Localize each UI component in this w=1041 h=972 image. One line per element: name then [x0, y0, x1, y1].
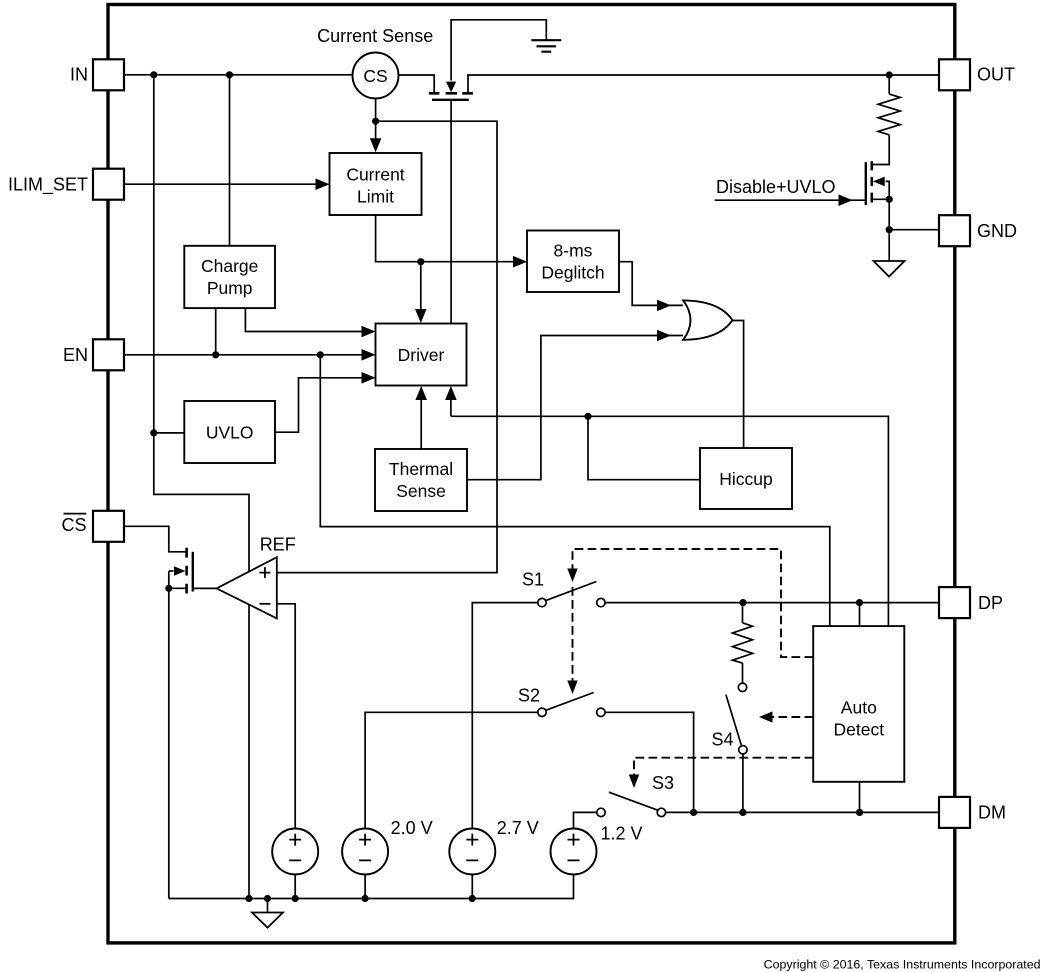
svg-text:Deglitch: Deglitch	[541, 263, 604, 283]
wire discharge FET body stub	[886, 181, 890, 199]
ground earth symbol top	[531, 40, 561, 52]
wire GND rail	[889, 229, 940, 231]
dashed wire Auto Detect to S3 control	[634, 758, 813, 783]
switch S3 contacts and lever	[597, 792, 666, 816]
wire DP rail from S1 to DP pin	[605, 602, 939, 604]
svg-text:Current: Current	[346, 165, 404, 185]
svg-text:Limit: Limit	[357, 187, 394, 207]
svg-text:Current Sense: Current Sense	[317, 26, 433, 46]
block Thermal Sense	[375, 449, 467, 511]
wire pass FET source stub to OUT rail	[468, 75, 939, 92]
wire CS FET source/body column to bottom rail	[168, 571, 170, 899]
voltage source REF (unlabeled)	[272, 829, 318, 875]
arrowheads	[316, 82, 853, 788]
wire 1.2V source to S3 left contact	[574, 812, 597, 828]
dashed wire Auto Detect to S1/S2 control	[573, 549, 814, 657]
transistor Q2 discharge FET channel and gate	[866, 161, 872, 205]
svg-text:Copyright © 2016, Texas Instru: Copyright © 2016, Texas Instruments Inco…	[764, 957, 1041, 971]
wire 2.0V source bottom stub	[364, 875, 366, 899]
node CS FET source/body junction	[165, 585, 172, 592]
node rail/ground junction	[264, 895, 271, 902]
wire sense line to comparator plus input	[277, 121, 497, 572]
pin CS-bar	[61, 511, 124, 542]
node rail/REF-source junction	[292, 895, 299, 902]
svg-text:Driver: Driver	[398, 345, 445, 365]
wire Thermal Sense to Driver bottom	[420, 389, 422, 449]
node DM/S4 junction	[739, 809, 746, 816]
node fault/hiccup junction	[584, 413, 591, 420]
svg-text:2.0 V: 2.0 V	[391, 818, 433, 838]
node DM/S2 junction	[690, 809, 697, 816]
wire CS FET body arrow stub	[169, 570, 174, 572]
block Driver	[376, 324, 467, 386]
node UVLO input junction	[150, 429, 157, 436]
wire CS pin to CS FET drain	[124, 526, 186, 552]
wire EN rail	[124, 354, 373, 356]
arrow into Driver input 2	[362, 349, 376, 361]
svg-text:DM: DM	[978, 803, 1006, 823]
pin DM	[939, 797, 1006, 828]
wire ground stem bottom left	[267, 899, 269, 913]
wire Driver bottom input 2 riser	[450, 389, 452, 416]
ground triangle right	[874, 261, 905, 277]
wire UVLO output to Driver input 3	[275, 378, 373, 432]
wire S1 left contact to 2.7V source	[472, 603, 538, 829]
node rail/2.7V junction	[469, 895, 476, 902]
node IN/left-column junction	[150, 71, 157, 78]
wire Auto Detect top pin to DP rail	[859, 603, 861, 627]
wire Current Limit bottom to 8-ms Deglitch	[376, 215, 524, 262]
arrow dashed to S2	[567, 681, 577, 695]
block Charge Pump	[184, 246, 275, 308]
svg-text:CS: CS	[363, 66, 387, 86]
arrow into Driver input 3	[362, 372, 376, 384]
current sense element CS	[317, 26, 433, 98]
wire fault line across to Auto Detect top	[451, 416, 889, 626]
block 8-ms Deglitch	[527, 231, 619, 293]
wire comparator output to CS FET gate	[193, 587, 217, 589]
svg-text:S2: S2	[518, 686, 540, 706]
resistor R1 at OUT	[878, 94, 900, 135]
svg-text:Hiccup: Hiccup	[719, 469, 773, 489]
OR gate U2	[683, 300, 732, 339]
dashed wire S1 to S2 control segment	[572, 587, 574, 689]
transistor Q1 pass FET channel and gate	[429, 93, 473, 100]
svg-text:S3: S3	[652, 773, 674, 793]
node DP/auto-detect junction	[856, 599, 863, 606]
node DP/resistor junction	[739, 599, 746, 606]
wire comparator minus input to REF source	[277, 604, 295, 829]
svg-text:EN: EN	[63, 345, 88, 365]
wire pass FET body to earth ground	[451, 20, 546, 81]
wire Deglitch output to OR gate input 1	[619, 262, 683, 306]
arrow into Driver bottom from fault line	[445, 386, 457, 400]
svg-text:Sense: Sense	[396, 481, 446, 501]
node current-limit output junction	[417, 258, 424, 265]
wire junction to Current Limit top	[375, 121, 377, 150]
wire DM rail from S3 to DM pin	[666, 811, 939, 813]
wire CS circle to pass FET drain stub	[399, 75, 435, 92]
wire fault branch to Hiccup input	[588, 416, 700, 479]
wire resistor R2 bottom stub	[742, 663, 744, 683]
svg-text:Disable+UVLO: Disable+UVLO	[716, 177, 836, 197]
pin DP	[939, 587, 1003, 618]
transistor Q2 body arrow	[873, 177, 885, 187]
arrow on Disable+UVLO gate line	[839, 194, 853, 206]
node rail/2.0V junction	[362, 895, 369, 902]
svg-text:DP: DP	[978, 593, 1003, 613]
svg-text:Charge: Charge	[201, 256, 258, 276]
svg-text:Thermal: Thermal	[389, 459, 453, 479]
wire bottom ground rail	[169, 875, 574, 899]
outer device boundary box	[108, 5, 955, 943]
wire junction down to Driver top	[420, 262, 422, 321]
svg-text:IN: IN	[70, 65, 88, 85]
wire OR gate output to Hiccup top	[733, 321, 744, 449]
wire pass FET gate to Driver top	[450, 100, 452, 324]
switch S2 contacts and lever	[538, 693, 605, 717]
dashed wire Auto Detect left output arrow	[764, 716, 813, 718]
wire EN branch down and across to Auto Detect top	[320, 355, 830, 626]
wire S2 left contact to 2.0V source	[365, 712, 538, 828]
svg-text:ILIM_SET: ILIM_SET	[8, 175, 88, 196]
node EN/charge-pump junction	[212, 351, 219, 358]
block Auto Detect	[813, 626, 904, 782]
svg-text:2.7 V: 2.7 V	[497, 818, 539, 838]
switch S1 contacts and lever	[538, 582, 605, 607]
wire OUT branch to resistor R1	[888, 75, 890, 94]
ground triangle bottom left	[252, 913, 283, 928]
wire IN rail	[124, 74, 353, 76]
node DM/auto-detect junction	[856, 809, 863, 816]
wire 2.7V source bottom stub	[471, 875, 473, 899]
arrow into Deglitch left	[513, 256, 527, 268]
arrow pass FET body (down)	[446, 82, 456, 93]
arrow into Driver input 1	[362, 326, 376, 338]
wire Charge Pump left pin to EN line	[215, 308, 217, 355]
node discharge FET source junction	[886, 196, 893, 203]
pin OUT	[939, 59, 1015, 90]
pin ILIM_SET	[8, 169, 124, 200]
wire discharge FET source to ground triangle	[888, 199, 890, 261]
svg-text:UVLO: UVLO	[206, 423, 254, 443]
node IN/charge-pump junction	[226, 71, 233, 78]
block Current Limit	[330, 153, 422, 215]
wire CS circle bottom to junction	[375, 99, 377, 122]
voltage source 2.7 V	[449, 818, 538, 874]
block Hiccup	[700, 448, 792, 509]
node GND rail junction	[886, 226, 893, 233]
pin GND	[939, 215, 1017, 246]
arrow into Current Limit left	[316, 178, 330, 190]
svg-text:Auto: Auto	[841, 697, 877, 717]
wire S4 bottom contact down to DM rail	[742, 754, 744, 812]
pin IN	[70, 59, 124, 90]
wire CS FET source stub	[169, 587, 186, 589]
voltage source 2.0 V	[342, 818, 433, 874]
svg-text:CS: CS	[61, 515, 86, 535]
block UVLO	[184, 401, 275, 463]
wire S2 right contact down to DM rail	[605, 712, 694, 812]
svg-text:S1: S1	[522, 570, 544, 590]
arrow dashed to S1	[567, 569, 577, 583]
node current sense junction	[372, 118, 379, 125]
op-amp comparator REF	[217, 535, 296, 619]
transistor Q3 CS disconnect FET channel and gate	[187, 548, 193, 594]
pin EN	[63, 339, 124, 370]
arrow into Current Limit top	[370, 138, 382, 152]
wire UVLO input	[154, 432, 185, 434]
voltage source 1.2 V	[551, 824, 643, 875]
node OUT/resistor junction	[886, 71, 893, 78]
svg-text:OUT: OUT	[977, 65, 1015, 85]
wire discharge FET source stub	[872, 198, 889, 200]
wire IN branch to Charge Pump top	[229, 75, 231, 246]
wire IN branch down left column to UVLO and behind comparator to bottom rail	[154, 75, 249, 899]
switch S4 contacts and lever	[726, 683, 747, 754]
wire Disable+UVLO gate line	[715, 199, 866, 201]
wire DP branch to resistor R2	[742, 603, 744, 623]
wire Auto Detect bottom pin to DM rail	[859, 782, 861, 813]
wire ILIM_SET to Current Limit	[124, 183, 327, 185]
svg-text:Pump: Pump	[207, 278, 253, 298]
wire Thermal Sense output to OR gate input 2	[467, 336, 683, 480]
wire Charge Pump right pin to Driver input 1	[245, 308, 372, 331]
resistor R2 at DP	[733, 623, 753, 663]
arrow into Driver top	[415, 309, 427, 323]
svg-text:Detect: Detect	[834, 719, 885, 739]
arrow into OR gate input 2	[657, 330, 671, 342]
svg-text:8-ms: 8-ms	[554, 241, 593, 261]
arrow dashed from Auto Detect (left)	[759, 711, 773, 722]
wire REF source bottom stub	[294, 875, 296, 899]
node rail/comparator-column junction	[245, 895, 252, 902]
svg-text:REF: REF	[260, 535, 296, 555]
arrow into OR gate input 1	[657, 300, 671, 312]
svg-text:GND: GND	[977, 221, 1017, 241]
svg-text:S4: S4	[712, 730, 734, 750]
arrow dashed to S3	[629, 775, 639, 789]
transistor Q3 body arrow	[174, 566, 186, 575]
wire discharge FET drain stub	[872, 135, 889, 165]
arrow into Driver bottom from Thermal Sense	[415, 386, 427, 400]
svg-text:1.2 V: 1.2 V	[601, 824, 643, 844]
node EN branch junction	[317, 351, 324, 358]
